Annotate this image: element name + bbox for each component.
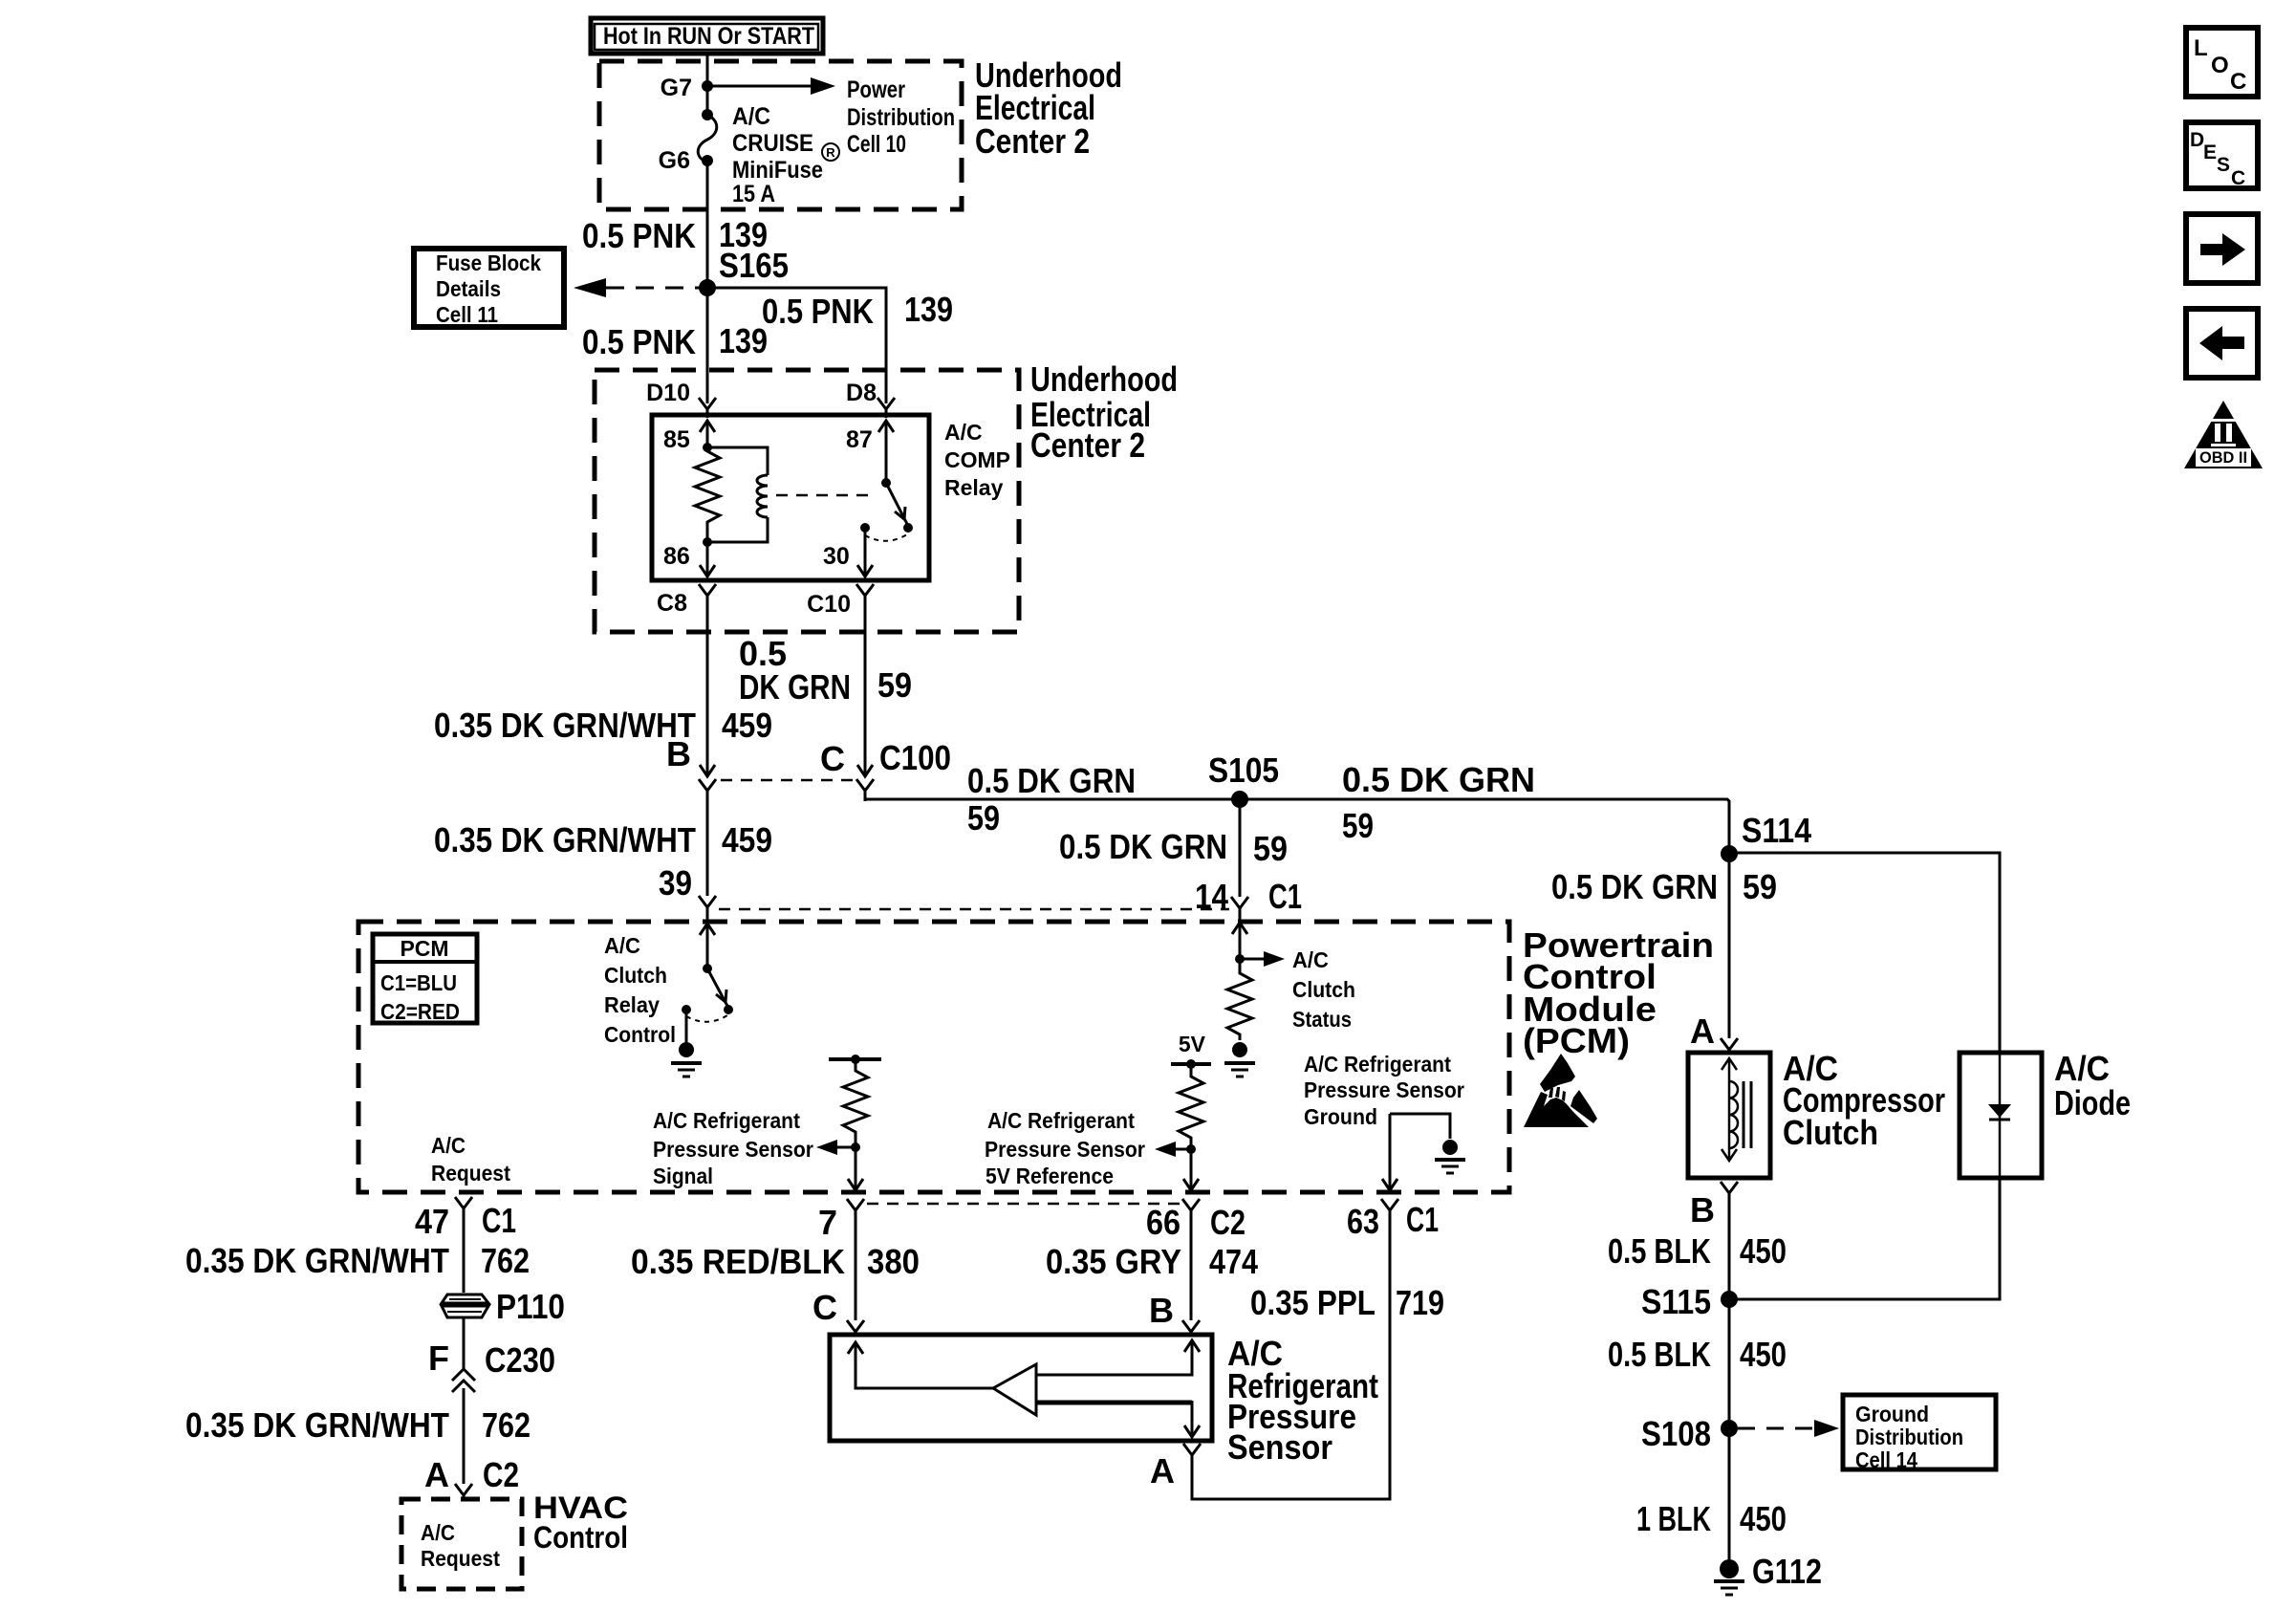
label 0.5 BLK 450 (lower) [1608, 1335, 1787, 1374]
svg-text:7: 7 [818, 1203, 837, 1242]
svg-text:P110: P110 [496, 1287, 565, 1326]
svg-text:Relay: Relay [604, 992, 660, 1017]
splice S165 [699, 279, 716, 296]
resistor (signal) [843, 1059, 868, 1147]
wire signal down to pin 7 [855, 1147, 857, 1188]
dashed arrow to Fuse Block Details [606, 287, 704, 290]
box A/C Diode [1960, 1053, 2042, 1178]
svg-text:D8: D8 [846, 380, 877, 406]
svg-text:719: 719 [1396, 1283, 1444, 1322]
svg-text:Pressure Sensor: Pressure Sensor [1304, 1077, 1464, 1102]
svg-text:59: 59 [1342, 806, 1374, 845]
svg-text:A/C: A/C [944, 420, 983, 445]
svg-text:Signal: Signal [653, 1164, 713, 1188]
relay coil-switch dashed link [776, 494, 876, 497]
svg-text:63: 63 [1347, 1202, 1379, 1241]
svg-text:C: C [812, 1288, 837, 1327]
A/C Clutch Status input [1232, 923, 1247, 959]
dashed line C2 [867, 1203, 1180, 1206]
ground (clutch status) [1232, 1042, 1247, 1057]
wire S105 right to S114 [1240, 799, 1729, 854]
svg-text:F: F [428, 1338, 449, 1378]
label 0.5 DK GRN 59 (S105 to S114) [1342, 760, 1811, 850]
wire S115 down to S108 [1728, 1299, 1731, 1428]
sensor internal A leg [1036, 1401, 1192, 1405]
dashed arrow S108 to Ground Distribution [1738, 1427, 1814, 1430]
svg-text:0.35 DK GRN/WHT: 0.35 DK GRN/WHT [185, 1405, 449, 1445]
svg-text:0.5 PNK: 0.5 PNK [582, 322, 696, 361]
diode symbol [1999, 1053, 2002, 1178]
svg-text:A/C: A/C [732, 103, 770, 130]
svg-text:C10: C10 [807, 591, 851, 618]
wire C10 down to C [864, 606, 867, 774]
svg-text:47: 47 [415, 1202, 449, 1241]
splice S108 [1721, 1420, 1738, 1437]
svg-text:A/C Refrigerant: A/C Refrigerant [1304, 1052, 1451, 1077]
svg-text:A/C Refrigerant: A/C Refrigerant [653, 1108, 800, 1133]
svg-text:Pressure Sensor: Pressure Sensor [985, 1137, 1145, 1162]
svg-text:C2=RED: C2=RED [380, 999, 460, 1024]
sensor internal C leg [848, 1342, 993, 1388]
svg-text:Clutch: Clutch [604, 963, 667, 988]
svg-text:S108: S108 [1641, 1414, 1711, 1453]
wire S114 down to clutch A [1728, 854, 1731, 1038]
svg-text:0.5 DK GRN: 0.5 DK GRN [967, 761, 1136, 800]
svg-text:A/C: A/C [2054, 1049, 2110, 1088]
label 0.5 BLK 450 (upper) [1608, 1231, 1787, 1271]
splice S115 [1721, 1291, 1738, 1308]
svg-text:G112: G112 [1752, 1552, 1822, 1591]
relay coil [707, 447, 768, 475]
svg-text:(PCM): (PCM) [1523, 1021, 1630, 1060]
label 1 BLK 450 [1636, 1499, 1787, 1538]
svg-text:87: 87 [846, 426, 873, 453]
A/C Clutch Relay Control switch [700, 924, 715, 968]
svg-text:COMP: COMP [944, 447, 1010, 472]
A/C Refrigerant Pressure Sensor Ground hook [1390, 1114, 1450, 1139]
wire clutch B down to S115 [1728, 1193, 1731, 1299]
5V supply bar (signal resistor) [829, 1057, 881, 1061]
svg-text:762: 762 [482, 1405, 531, 1445]
label 0.5 DK GRN 59 (C10 wire) [739, 634, 912, 707]
svg-text:139: 139 [719, 321, 768, 360]
svg-text:C: C [820, 739, 845, 778]
svg-text:Request: Request [431, 1161, 510, 1186]
connector C100 B side [700, 765, 715, 776]
svg-text:C100: C100 [879, 738, 951, 777]
svg-text:D10: D10 [646, 380, 690, 406]
svg-text:Clutch: Clutch [1292, 977, 1355, 1002]
dashed box Powertrain Control Module (PCM) [358, 922, 1509, 1192]
wire 66 down to sensor B [1190, 1224, 1193, 1320]
svg-text:Cell 14: Cell 14 [1855, 1447, 1917, 1472]
connector D8 [877, 398, 895, 418]
wire 47 to P110 [463, 1222, 466, 1293]
dashed box Underhood Electrical Center 2 (relay) [595, 370, 1019, 632]
connector D10 [699, 398, 716, 418]
connector A at clutch [1721, 1038, 1738, 1053]
svg-text:Center 2: Center 2 [975, 121, 1090, 161]
svg-text:Distribution: Distribution [847, 104, 955, 131]
svg-text:A/C Refrigerant: A/C Refrigerant [987, 1108, 1135, 1133]
relay pin 87 [878, 421, 894, 483]
svg-text:A: A [1690, 1012, 1715, 1051]
wire S108 down to G112 [1728, 1428, 1731, 1562]
svg-text:S165: S165 [719, 246, 789, 285]
svg-text:Request: Request [421, 1546, 500, 1571]
svg-text:Cell 11: Cell 11 [436, 302, 498, 327]
svg-text:0.5 DK GRN: 0.5 DK GRN [1551, 867, 1718, 906]
arrow A/C Refrigerant Pressure Sensor Signal [834, 1146, 856, 1149]
connector pin 7 (C2) [847, 1199, 864, 1224]
svg-text:C: C [2231, 167, 2245, 189]
svg-text:5V: 5V [1179, 1032, 1206, 1056]
svg-text:1 BLK: 1 BLK [1636, 1499, 1711, 1538]
label 0.5 PNK 139 (above S165) [582, 215, 789, 285]
connector C10 [856, 584, 874, 606]
svg-text:0.5 DK GRN: 0.5 DK GRN [1342, 760, 1535, 799]
svg-text:0.35 DK GRN/WHT: 0.35 DK GRN/WHT [434, 706, 696, 745]
svg-text:Clutch: Clutch [1783, 1113, 1878, 1152]
svg-text:59: 59 [967, 798, 1000, 838]
resistor (clutch status) [1227, 959, 1252, 1040]
svg-text:A/C: A/C [604, 933, 640, 958]
svg-text:39: 39 [659, 863, 692, 903]
ground (A/C clutch relay control) [685, 1010, 688, 1042]
label 0.5 DK GRN 59 (S105 down) [1059, 827, 1288, 868]
svg-text:Distribution: Distribution [1855, 1425, 1963, 1449]
svg-text:C230: C230 [485, 1340, 555, 1380]
splice S105 [1231, 791, 1248, 808]
label 0.5 PNK 139 (branch) [762, 290, 953, 331]
connector A (C2) at HVAC [455, 1484, 472, 1499]
splice S114 [1721, 845, 1738, 862]
svg-text:G6: G6 [659, 147, 690, 174]
svg-text:0.35 GRY: 0.35 GRY [1046, 1242, 1181, 1281]
svg-text:E: E [2203, 141, 2217, 163]
connector C at sensor [847, 1320, 864, 1335]
connector B at clutch [1721, 1182, 1738, 1197]
svg-text:86: 86 [663, 543, 690, 570]
label 0.35 DK GRN/WHT 762 (lower) [185, 1405, 531, 1445]
sensor internal B leg [1036, 1340, 1200, 1375]
dashed line C1 [719, 908, 1229, 911]
svg-text:450: 450 [1740, 1499, 1787, 1538]
connector B at sensor [1182, 1320, 1200, 1335]
dashed line C100 [721, 779, 853, 782]
clutch coil symbol [1722, 1058, 1737, 1161]
label 0.5 DK GRN 59 (C to S105) [967, 751, 1279, 838]
sensor internal amplifier triangle [993, 1364, 1036, 1415]
wire P110 to C230 [463, 1317, 466, 1369]
icon LOC [2186, 28, 2258, 97]
svg-text:Ground: Ground [1304, 1104, 1377, 1129]
svg-text:A: A [424, 1455, 449, 1494]
icon arrow left [2186, 309, 2258, 378]
svg-text:15 A: 15 A [732, 181, 775, 207]
connector C100 C side [857, 765, 873, 776]
svg-text:0.35 DK GRN/WHT: 0.35 DK GRN/WHT [185, 1241, 449, 1280]
relay pin 86 [706, 542, 709, 576]
svg-text:0.35 PPL: 0.35 PPL [1250, 1283, 1375, 1322]
svg-text:B: B [1690, 1190, 1715, 1229]
connector pin 66 (C2) [1182, 1199, 1200, 1224]
svg-text:Diode: Diode [2054, 1083, 2131, 1122]
wire diode down to S115 [1729, 1178, 2000, 1299]
svg-text:450: 450 [1740, 1335, 1787, 1374]
svg-text:L: L [2194, 35, 2208, 61]
wire S165 down to D10 [706, 288, 709, 403]
box Hot In RUN Or START [591, 18, 823, 54]
relay switch [881, 478, 891, 488]
connector pin 47 (C1) [455, 1197, 472, 1222]
svg-text:S115: S115 [1641, 1282, 1711, 1321]
label 0.35 PPL 719 [1250, 1283, 1444, 1322]
wire 63 down and to sensor A [1192, 1224, 1390, 1499]
svg-text:139: 139 [904, 290, 953, 329]
svg-text:59: 59 [877, 665, 912, 705]
label 0.5 PNK 139 (below S165) [582, 321, 768, 361]
label 0.35 DK GRN/WHT 459 (upper) [434, 706, 772, 745]
relay pin 30 [864, 528, 867, 576]
svg-text:0.5 BLK: 0.5 BLK [1608, 1335, 1711, 1374]
svg-text:S: S [2217, 154, 2230, 176]
svg-text:A/C: A/C [421, 1520, 455, 1545]
wire from Hot box to G7 [706, 54, 709, 86]
wire C8 down to B [706, 606, 709, 774]
svg-text:B: B [666, 734, 691, 773]
svg-text:PCM: PCM [400, 936, 448, 961]
PCM legend box [373, 934, 477, 1024]
svg-text:Ground: Ground [1855, 1402, 1929, 1426]
svg-text:C1: C1 [1406, 1200, 1439, 1239]
connector pin 63 (C1) [1381, 1199, 1398, 1224]
label 0.5 DK GRN 59 (S114 down) [1551, 867, 1777, 906]
svg-text:R: R [826, 145, 835, 160]
resistor (5V reference) [1179, 1064, 1203, 1149]
icon DESC [2186, 122, 2258, 189]
box Ground Distribution Cell 14 [1843, 1395, 1996, 1472]
svg-text:C1: C1 [1268, 877, 1302, 916]
svg-text:O: O [2211, 53, 2229, 78]
svg-text:380: 380 [867, 1242, 920, 1281]
connector pin 14 (C1) [1231, 897, 1248, 922]
svg-text:Relay: Relay [944, 475, 1004, 500]
svg-text:Pressure Sensor: Pressure Sensor [653, 1137, 813, 1162]
svg-text:MiniFuse: MiniFuse [732, 157, 823, 184]
svg-text:30: 30 [823, 543, 850, 570]
svg-text:450: 450 [1740, 1231, 1787, 1271]
dashed box Underhood Electrical Center 2 (fuse block) [599, 61, 962, 209]
svg-text:Power: Power [847, 76, 905, 103]
svg-text:Hot In RUN Or START: Hot In RUN Or START [603, 23, 814, 50]
svg-text:C: C [2230, 69, 2246, 95]
svg-text:Underhood: Underhood [1030, 359, 1178, 399]
connector C8 [699, 584, 716, 606]
dashed box HVAC Control [401, 1499, 522, 1589]
svg-text:D: D [2190, 129, 2204, 151]
icon OBD II triangle [2184, 401, 2263, 468]
svg-text:Control: Control [604, 1022, 676, 1047]
wire arrow to Power Distribution [707, 85, 814, 88]
box Fuse Block Details Cell 11 [414, 249, 564, 327]
svg-text:A/C: A/C [431, 1133, 466, 1158]
svg-text:Sensor: Sensor [1227, 1427, 1332, 1467]
svg-text:0.5 PNK: 0.5 PNK [582, 216, 696, 255]
wire B down to pin 39 [706, 801, 709, 896]
node G7 [702, 80, 713, 92]
fuse A/C CRUISE MiniFuse 15 A [702, 109, 713, 120]
svg-text:C1: C1 [482, 1201, 516, 1240]
connector C230 [452, 1369, 475, 1392]
svg-text:Center 2: Center 2 [1030, 425, 1145, 465]
svg-text:762: 762 [481, 1241, 530, 1280]
box A/C Compressor Clutch [1688, 1053, 1770, 1178]
wire S165 branch right to D8 [707, 288, 886, 403]
svg-text:0.5 DK GRN: 0.5 DK GRN [1059, 827, 1227, 866]
relay pin 85 [700, 421, 715, 447]
svg-text:CRUISE: CRUISE [732, 130, 813, 157]
wire ground hook down to pin 63 [1389, 1114, 1392, 1188]
label 0.35 DK GRN/WHT 762 (upper) [185, 1241, 530, 1280]
svg-text:459: 459 [722, 706, 772, 745]
svg-text:Control: Control [533, 1520, 628, 1555]
svg-text:0.35 RED/BLK: 0.35 RED/BLK [631, 1242, 845, 1281]
icon arrow right [2186, 214, 2258, 283]
svg-text:A/C: A/C [1292, 947, 1329, 972]
A/C Request label [431, 1133, 510, 1186]
wire G7 to fuse [706, 86, 709, 115]
svg-text:C1=BLU: C1=BLU [380, 970, 457, 995]
svg-text:474: 474 [1209, 1242, 1258, 1281]
label 0.35 GRY 474 [1046, 1242, 1258, 1281]
svg-text:DK GRN: DK GRN [739, 667, 851, 707]
svg-text:Fuse Block: Fuse Block [436, 250, 541, 275]
svg-text:A: A [1150, 1451, 1175, 1490]
relay resistor 85-86 [695, 447, 720, 542]
wire 5V ref down to pin 66 [1190, 1149, 1193, 1188]
ESD symbol [1524, 1054, 1597, 1127]
svg-text:OBD II: OBD II [2199, 448, 2247, 467]
svg-text:85: 85 [663, 426, 690, 453]
ground G112 [1720, 1559, 1739, 1578]
svg-text:0.35 DK GRN/WHT: 0.35 DK GRN/WHT [434, 820, 696, 859]
connector A at sensor bottom [1183, 1444, 1201, 1457]
svg-text:66: 66 [1146, 1203, 1180, 1242]
wire 7 down to sensor C [855, 1224, 857, 1320]
label Powertrain Control Module (PCM) [1523, 925, 1714, 1060]
svg-text:59: 59 [1743, 867, 1777, 906]
svg-text:59: 59 [1253, 829, 1288, 868]
svg-text:C8: C8 [657, 590, 687, 617]
svg-text:0.5 BLK: 0.5 BLK [1608, 1231, 1711, 1271]
svg-text:S114: S114 [1742, 811, 1811, 850]
svg-text:B: B [1149, 1291, 1174, 1330]
svg-text:Status: Status [1292, 1007, 1352, 1032]
wire C right to S105 [865, 799, 1240, 801]
label 0.35 DK GRN/WHT 459 (lower) [434, 820, 772, 859]
relay K (A/C COMP Relay) box [652, 415, 929, 580]
svg-text:459: 459 [722, 820, 772, 859]
svg-text:Cell 10: Cell 10 [847, 131, 906, 158]
wire G6 down to S165 [706, 161, 709, 288]
wire S114 right to diode [1729, 853, 2000, 1053]
label Underhood Electrical Center 2 (relay box) [1030, 359, 1178, 465]
svg-text:C2: C2 [1210, 1203, 1245, 1242]
svg-text:0.5 PNK: 0.5 PNK [762, 292, 874, 331]
svg-text:G7: G7 [661, 75, 692, 101]
label Underhood Electrical Center 2 (top) [975, 55, 1122, 161]
wire C230 to HVAC [463, 1388, 466, 1484]
arrow A/C Refrigerant Pressure Sensor 5V Reference [1172, 1148, 1191, 1151]
pass-through P110 [442, 1287, 565, 1326]
wire S105 down to pin 14 [1239, 799, 1242, 897]
svg-text:5V Reference: 5V Reference [986, 1164, 1114, 1188]
svg-text:Details: Details [436, 276, 501, 301]
svg-text:S105: S105 [1208, 751, 1279, 790]
label 0.35 RED/BLK 380 [631, 1242, 920, 1281]
svg-text:C2: C2 [483, 1455, 519, 1494]
box A/C Refrigerant Pressure Sensor [830, 1335, 1212, 1441]
connector pin 39 (C1) [699, 896, 716, 921]
